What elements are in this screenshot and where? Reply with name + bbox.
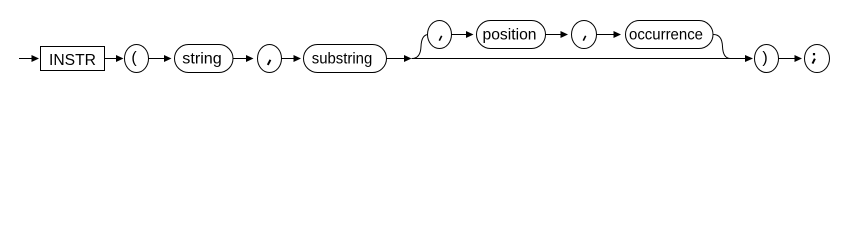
svg-text:position: position bbox=[483, 27, 537, 44]
wire arrow to string bbox=[149, 55, 172, 62]
wire arrow to semicolon bbox=[779, 55, 803, 62]
svg-text:(: ( bbox=[131, 49, 137, 66]
svg-text:INSTR: INSTR bbox=[49, 52, 96, 69]
wire arrow to ( bbox=[105, 55, 124, 62]
svg-text:substring: substring bbox=[312, 51, 373, 68]
wire arrowhead before ) bbox=[745, 55, 753, 62]
wire arrow after substring bbox=[387, 55, 412, 62]
wire arrow to occurrence bbox=[597, 31, 622, 38]
svg-text:occurrence: occurrence bbox=[629, 27, 703, 44]
wire start arrow bbox=[19, 55, 39, 62]
terminal comma1 bbox=[258, 45, 282, 73]
svg-text:string: string bbox=[182, 51, 222, 68]
wire arrow to comma3 bbox=[546, 31, 569, 38]
terminal semicolon bbox=[805, 45, 830, 73]
terminal ) bbox=[755, 45, 779, 73]
wire arrow to position bbox=[452, 31, 474, 38]
terminal position bbox=[477, 21, 546, 49]
svg-text:): ) bbox=[762, 49, 767, 66]
terminal comma3 bbox=[572, 21, 597, 49]
wire arrow to substring bbox=[281, 55, 301, 62]
keyword box INSTR bbox=[41, 47, 105, 71]
terminal string bbox=[175, 45, 234, 73]
terminal comma2 bbox=[428, 21, 452, 49]
wire branch down-curve bbox=[714, 35, 731, 59]
terminal substring bbox=[304, 45, 387, 73]
terminal occurrence bbox=[626, 21, 714, 49]
wire branch up-curve bbox=[412, 35, 429, 59]
terminal ( bbox=[125, 45, 149, 73]
wire arrow to comma1 bbox=[233, 55, 254, 62]
wire main line under optional branch bbox=[412, 58, 746, 60]
